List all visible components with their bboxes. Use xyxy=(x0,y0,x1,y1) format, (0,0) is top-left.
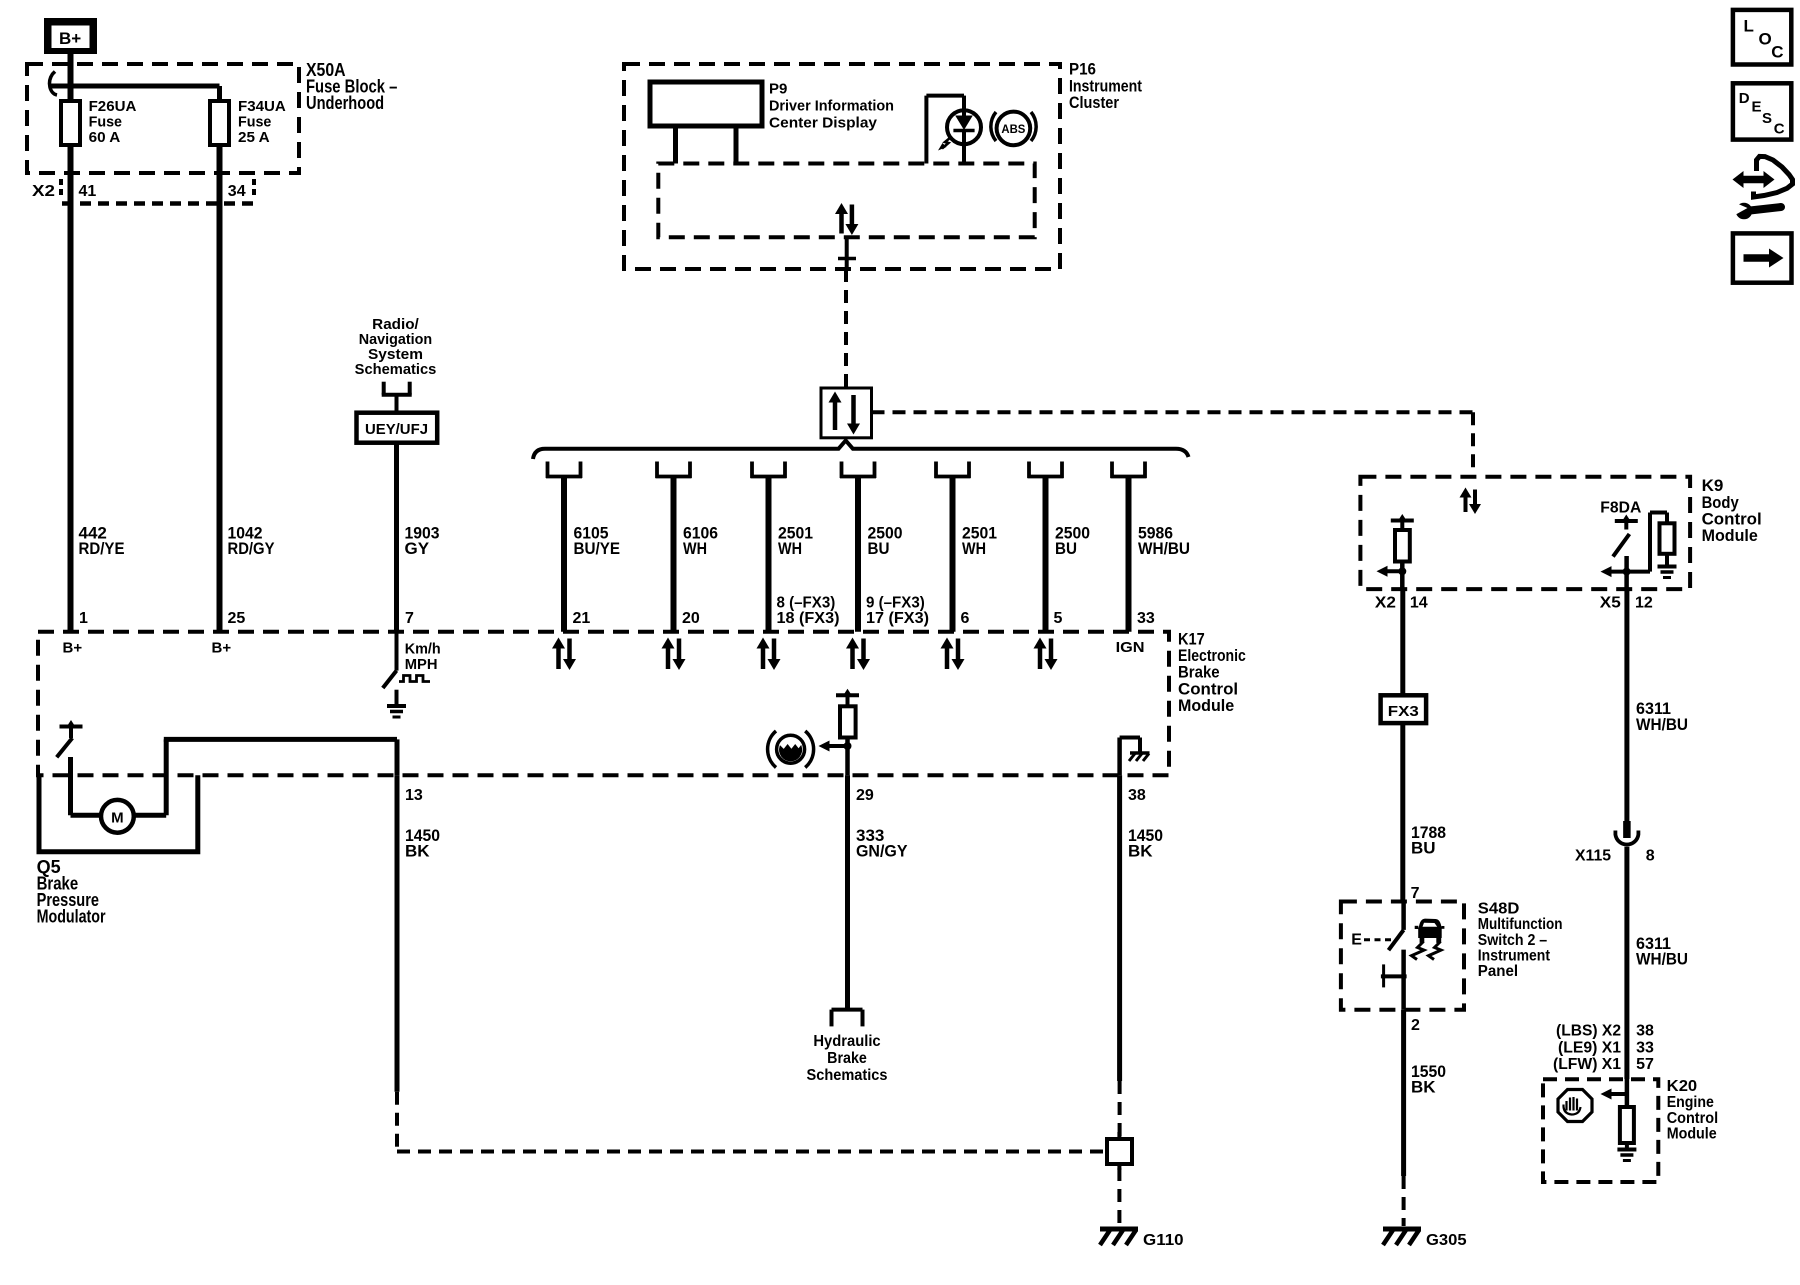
brake pedal icon in K20 xyxy=(1558,1090,1592,1122)
svg-text:BK: BK xyxy=(1411,1078,1436,1097)
pin 21 xyxy=(573,610,591,627)
svg-text:5: 5 xyxy=(1054,610,1063,627)
icon forward arrow box xyxy=(1733,233,1792,282)
svg-text:WH: WH xyxy=(778,539,802,558)
svg-text:BU: BU xyxy=(868,539,890,558)
splice junction square xyxy=(1107,1132,1132,1170)
module K17 Electronic Brake Control Module dashed box xyxy=(38,632,1169,776)
wire 1788 BU xyxy=(1400,723,1405,901)
K9 right junction arrow xyxy=(1601,566,1631,577)
svg-text:UEY/UFJ: UEY/UFJ xyxy=(365,421,428,438)
label X115 pin 8 xyxy=(1575,847,1655,864)
svg-text:K20: K20 xyxy=(1667,1078,1698,1095)
label harness variants LBS LE9 LFW xyxy=(1553,1023,1654,1073)
serial data arrows pin 2 xyxy=(662,638,686,671)
label Km/h MPH xyxy=(405,640,441,673)
svg-text:WH/BU: WH/BU xyxy=(1636,715,1688,734)
power symbol B+ xyxy=(44,18,97,54)
pin 8/18 FX3 xyxy=(777,595,840,628)
label 2500 BU xyxy=(1055,524,1090,558)
svg-text:21: 21 xyxy=(573,610,591,627)
svg-text:X115: X115 xyxy=(1575,847,1611,864)
connector box UEY/UFJ xyxy=(357,413,438,443)
svg-text:G110: G110 xyxy=(1143,1232,1184,1249)
svg-text:Underhood: Underhood xyxy=(306,93,384,113)
module P16 Instrument Cluster dashed box xyxy=(624,64,1060,269)
svg-text:M: M xyxy=(111,810,124,827)
svg-text:Fuse: Fuse xyxy=(238,114,271,131)
wire 1042 RD/GY xyxy=(217,145,223,632)
svg-text:57: 57 xyxy=(1636,1056,1654,1073)
svg-text:BK: BK xyxy=(1128,842,1153,861)
label 6311 WH/BU upper xyxy=(1636,699,1688,734)
label F26UA Fuse 60 A xyxy=(89,98,137,146)
bus drop connector 7 xyxy=(1111,462,1147,479)
svg-text:Instrument: Instrument xyxy=(1478,948,1551,965)
svg-text:Brake: Brake xyxy=(827,1050,867,1067)
wire motor return to pin 13 xyxy=(164,739,397,815)
pump motor relay contact in K17 xyxy=(57,720,83,757)
bus drop connector 6 xyxy=(1028,462,1064,479)
icon DESC box xyxy=(1733,83,1791,139)
svg-text:Cluster: Cluster xyxy=(1069,93,1119,112)
svg-text:Km/h: Km/h xyxy=(405,640,441,657)
svg-text:8 (–FX3): 8 (–FX3) xyxy=(777,595,836,612)
bus drop connector 4 xyxy=(840,462,876,479)
label G305 xyxy=(1426,1232,1467,1249)
connector FX3 box xyxy=(1381,695,1427,723)
svg-text:B+: B+ xyxy=(59,29,81,48)
svg-text:9 (–FX3): 9 (–FX3) xyxy=(866,595,925,612)
wire 1903 GY xyxy=(394,443,399,632)
label 2501 WH xyxy=(962,524,997,558)
label K9 Body Control Module xyxy=(1702,476,1762,545)
svg-text:25 A: 25 A xyxy=(238,129,270,146)
svg-text:Control: Control xyxy=(1667,1110,1718,1127)
label G110 xyxy=(1143,1232,1184,1249)
svg-text:1: 1 xyxy=(79,610,88,627)
svg-text:60 A: 60 A xyxy=(89,129,121,146)
pin 7 S48D xyxy=(1411,885,1420,902)
svg-text:WH/BU: WH/BU xyxy=(1138,539,1190,558)
svg-text:Module: Module xyxy=(1178,696,1234,715)
dashed ground wire to G110 xyxy=(397,1092,1105,1154)
pin 1 xyxy=(79,610,88,627)
bus drop connector 2 xyxy=(656,462,692,479)
serial data node box xyxy=(821,388,872,438)
ABS warning symbol xyxy=(991,112,1036,146)
svg-text:F8DA: F8DA xyxy=(1600,499,1641,516)
label 1450 BK left xyxy=(405,826,440,861)
serial data arrows pin 1 xyxy=(552,638,576,671)
display P9 xyxy=(650,82,762,164)
pin 41 xyxy=(79,183,97,200)
wire 2501 WH xyxy=(950,478,956,632)
svg-text:Module: Module xyxy=(1667,1126,1717,1143)
pin 13 xyxy=(405,787,423,804)
svg-text:O: O xyxy=(1759,30,1772,49)
pin 33 xyxy=(1137,610,1155,627)
icon LOC box xyxy=(1733,10,1791,65)
svg-text:6: 6 xyxy=(961,610,970,627)
wire 2500 BU xyxy=(855,478,861,632)
svg-text:GY: GY xyxy=(405,539,430,558)
svg-text:BU: BU xyxy=(1055,539,1077,558)
pin 29 xyxy=(856,787,874,804)
svg-text:S: S xyxy=(1762,110,1772,127)
label 5986 WH/BU xyxy=(1138,524,1190,558)
module S48D dashed box xyxy=(1341,902,1464,1010)
chassis ground return in K17 pin 38 xyxy=(1120,738,1150,776)
svg-text:F26UA: F26UA xyxy=(89,98,137,115)
svg-text:34: 34 xyxy=(228,183,246,200)
svg-text:Multifunction: Multifunction xyxy=(1478,916,1563,933)
relay coil loop in K9 xyxy=(1627,513,1677,578)
fusible hook at junction xyxy=(50,72,57,96)
brake warning indicator icon xyxy=(768,731,814,768)
svg-text:Center Display: Center Display xyxy=(769,115,878,132)
dashed serial data wire from P16 xyxy=(844,269,848,388)
off-page bracket to hydraulic brake schematics xyxy=(832,1010,863,1027)
resistor for brake warning in K17 xyxy=(836,689,859,776)
svg-text:GN/GY: GN/GY xyxy=(856,842,908,861)
pin 25 xyxy=(228,610,246,627)
label X2 xyxy=(32,183,55,200)
module Q5 enclosure xyxy=(39,775,198,852)
connector X2 row xyxy=(61,179,254,204)
dashed actuator link xyxy=(1364,938,1391,941)
svg-text:B+: B+ xyxy=(212,640,232,657)
svg-text:20: 20 xyxy=(682,610,700,627)
label X2 pin 14 xyxy=(1375,595,1428,612)
svg-text:38: 38 xyxy=(1636,1023,1654,1040)
label F34UA Fuse 25 A xyxy=(238,98,286,146)
svg-text:FX3: FX3 xyxy=(1388,703,1419,720)
serial data arrows pin 6 xyxy=(1034,638,1058,671)
svg-text:18 (FX3): 18 (FX3) xyxy=(777,610,840,627)
pin 6 xyxy=(961,610,970,627)
wire B+ to fuse block xyxy=(68,54,74,101)
dashed serial data wire to K9 xyxy=(872,412,1474,477)
svg-text:33: 33 xyxy=(1636,1039,1654,1056)
pin 34 xyxy=(228,183,246,200)
module K9 Body Control Module dashed box xyxy=(1360,477,1690,589)
label Hydraulic Brake Schematics xyxy=(807,1033,888,1084)
svg-text:ABS: ABS xyxy=(1001,124,1025,136)
pin 5 xyxy=(1054,610,1063,627)
pin 2 xyxy=(1411,1017,1420,1034)
svg-text:E: E xyxy=(1752,98,1762,115)
serial data arrows in P16 xyxy=(835,203,858,235)
svg-text:(LE9) X1: (LE9) X1 xyxy=(1558,1039,1621,1056)
svg-text:P9: P9 xyxy=(769,81,787,98)
svg-text:B+: B+ xyxy=(63,640,83,657)
off-page bracket to radio schematics xyxy=(382,382,412,413)
svg-text:MPH: MPH xyxy=(405,656,438,673)
label 1788 BU xyxy=(1411,823,1446,858)
dashed wire junction to G110 xyxy=(1117,1168,1121,1226)
svg-text:X2: X2 xyxy=(32,183,55,200)
wire 2501 WH xyxy=(766,478,772,632)
inner dashed box in P16 xyxy=(658,164,1034,238)
svg-text:X5: X5 xyxy=(1600,595,1621,612)
label P9 Driver Information Center Display xyxy=(769,81,894,132)
svg-text:Panel: Panel xyxy=(1478,963,1518,980)
svg-text:Fuse: Fuse xyxy=(89,114,122,131)
label 2500 BU xyxy=(868,524,903,558)
label P16 Instrument Cluster xyxy=(1069,60,1142,113)
fuse block X50A dashed box xyxy=(27,64,299,173)
ABS indicator LED xyxy=(926,96,981,164)
in-line connector X115 xyxy=(1615,821,1638,1079)
ground inside K17 for VSS xyxy=(387,690,406,717)
svg-text:C: C xyxy=(1771,42,1783,61)
svg-text:12: 12 xyxy=(1635,595,1653,612)
switch blade in S48D xyxy=(1389,902,1404,951)
pin 9/17 FX3 xyxy=(866,595,929,628)
switch F8DA in K9 xyxy=(1613,515,1638,590)
svg-text:C: C xyxy=(1774,121,1785,138)
serial data arrows pin 5 xyxy=(941,638,965,671)
svg-text:29: 29 xyxy=(856,787,874,804)
serial data arrows in K9 xyxy=(1460,488,1482,515)
stem from P16 inner box xyxy=(838,237,856,269)
label 1550 BK xyxy=(1411,1062,1446,1097)
terminal resistor in K9 xyxy=(1391,514,1414,589)
svg-text:BU: BU xyxy=(1411,839,1436,858)
bus drop connector 3 xyxy=(751,462,787,479)
fuse F26UA xyxy=(61,101,80,145)
svg-text:G305: G305 xyxy=(1426,1232,1467,1249)
svg-text:2: 2 xyxy=(1411,1017,1420,1034)
svg-text:(LFW) X1: (LFW) X1 xyxy=(1553,1056,1621,1073)
label 442 RD/YE xyxy=(79,524,125,558)
label 1903 GY xyxy=(405,524,440,558)
wire 5986 WH/BU xyxy=(1126,478,1132,632)
label F8DA xyxy=(1600,499,1641,516)
dashed wire pin38 to junction xyxy=(1118,1081,1122,1139)
lower contact in S48D xyxy=(1381,950,1407,1010)
wire 1450 BK right xyxy=(1117,775,1122,1081)
pin 38 xyxy=(1128,787,1146,804)
wire relay to motor xyxy=(68,757,73,815)
label 333 GN/GY xyxy=(856,826,908,861)
svg-text:WH: WH xyxy=(683,539,707,558)
svg-text:L: L xyxy=(1744,17,1754,36)
svg-text:Driver Information: Driver Information xyxy=(769,98,894,115)
resistor to ground in K20 xyxy=(1617,1107,1636,1161)
svg-text:14: 14 xyxy=(1410,595,1428,612)
traction control icon in S48D xyxy=(1412,919,1445,959)
dashed wire to G305 xyxy=(1402,1176,1406,1226)
label X50A Fuse Block - Underhood xyxy=(306,60,397,113)
label 6105 BU/YE xyxy=(574,524,621,558)
pin 7 xyxy=(405,610,414,627)
pin 20 xyxy=(682,610,700,627)
svg-text:WH: WH xyxy=(962,539,986,558)
serial data arrows pin 3 xyxy=(757,638,781,671)
svg-text:E: E xyxy=(1351,932,1362,949)
svg-text:Schematics: Schematics xyxy=(807,1067,888,1084)
svg-text:BK: BK xyxy=(405,842,430,861)
label IGN xyxy=(1116,639,1145,656)
label X5 pin 12 xyxy=(1600,595,1653,612)
svg-text:17 (FX3): 17 (FX3) xyxy=(866,610,929,627)
svg-text:Switch 2 –: Switch 2 – xyxy=(1478,932,1547,949)
svg-text:F34UA: F34UA xyxy=(238,98,286,115)
svg-text:Hydraulic: Hydraulic xyxy=(813,1033,880,1050)
svg-text:8: 8 xyxy=(1646,847,1655,864)
motor M in Q5 xyxy=(71,800,167,833)
svg-text:IGN: IGN xyxy=(1116,639,1145,656)
wire 6106 WH xyxy=(671,478,677,632)
label 1450 BK right xyxy=(1128,826,1163,861)
svg-text:S48D: S48D xyxy=(1478,900,1520,917)
wire 6311 WH/BU upper xyxy=(1624,589,1629,821)
label S48D Multifunction Switch 2 - Instrument Panel xyxy=(1478,900,1563,980)
vehicle speed switch in K17 xyxy=(383,632,430,688)
wire 333 GN/GY xyxy=(845,775,850,1008)
label 2501 WH xyxy=(778,524,813,558)
label E xyxy=(1351,932,1362,949)
svg-text:X2: X2 xyxy=(1375,595,1396,612)
label 6106 WH xyxy=(683,524,718,558)
icon vehicle data communication xyxy=(1733,156,1793,218)
fuse F34UA xyxy=(210,86,229,145)
svg-text:RD/GY: RD/GY xyxy=(228,539,276,558)
label Radio/Navigation System Schematics xyxy=(355,316,437,378)
ground G110 xyxy=(1100,1229,1138,1245)
ground G305 xyxy=(1383,1229,1421,1245)
wire 442 RD/YE xyxy=(68,145,74,632)
brake warning junction arrow xyxy=(819,741,852,752)
svg-text:(LBS) X2: (LBS) X2 xyxy=(1556,1023,1621,1040)
svg-text:13: 13 xyxy=(405,787,423,804)
svg-text:Schematics: Schematics xyxy=(355,361,437,378)
svg-text:Module: Module xyxy=(1702,526,1758,545)
svg-text:Engine: Engine xyxy=(1667,1094,1714,1111)
K20 junction arrow xyxy=(1601,1079,1627,1107)
label 6311 WH/BU lower xyxy=(1636,934,1688,969)
K9 left junction arrow xyxy=(1377,566,1406,577)
wire 2500 BU xyxy=(1043,478,1049,632)
svg-text:D: D xyxy=(1739,90,1750,107)
wire junction to F34UA xyxy=(51,84,220,89)
svg-text:7: 7 xyxy=(1411,885,1420,902)
svg-text:7: 7 xyxy=(405,610,414,627)
svg-text:BU/YE: BU/YE xyxy=(574,539,621,558)
label Q5 Brake Pressure Modulator xyxy=(37,857,106,927)
wire 1450 BK left xyxy=(395,775,400,1091)
wire 6105 BU/YE xyxy=(561,478,567,632)
serial data bus brace xyxy=(533,441,1189,460)
wire K9 X2-14 down xyxy=(1400,589,1405,695)
svg-text:25: 25 xyxy=(228,610,246,627)
wire 1550 BK xyxy=(1401,1010,1406,1176)
label 1042 RD/GY xyxy=(228,524,276,558)
svg-text:33: 33 xyxy=(1137,610,1155,627)
serial data arrows pin 4 xyxy=(846,638,870,671)
svg-text:38: 38 xyxy=(1128,787,1146,804)
svg-text:Modulator: Modulator xyxy=(37,907,106,927)
module K20 Engine Control Module dashed box xyxy=(1543,1079,1658,1182)
terminal B+ pin 1 xyxy=(63,640,83,657)
bus drop connector 1 xyxy=(546,462,582,479)
svg-text:RD/YE: RD/YE xyxy=(79,539,125,558)
svg-text:41: 41 xyxy=(79,183,97,200)
label K20 Engine Control Module xyxy=(1667,1078,1718,1142)
svg-text:WH/BU: WH/BU xyxy=(1636,950,1688,969)
bus drop connector 5 xyxy=(935,462,971,479)
label K17 Electronic Brake Control Module xyxy=(1178,629,1246,715)
terminal B+ pin 25 xyxy=(212,640,232,657)
